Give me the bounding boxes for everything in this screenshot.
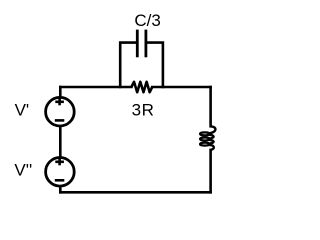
- wire capacitor branch right leg: [147, 43, 163, 87]
- wire left drop to source 1: [59, 87, 62, 96]
- resistor R zigzag: [131, 82, 152, 92]
- wire capacitor branch left leg: [120, 43, 136, 87]
- wire bottom: [60, 191, 210, 194]
- V' minus sign: [55, 119, 65, 122]
- wire right bottom drop: [209, 150, 212, 192]
- svg-text:3R: 3R: [132, 101, 155, 120]
- inductor L coil: [200, 126, 215, 150]
- capacitor C/3 plates: [137, 30, 146, 58]
- svg-text:V'': V'': [14, 160, 32, 179]
- V'' plus sign: [55, 159, 64, 166]
- voltage source V'' circle: [46, 158, 75, 187]
- V' plus sign: [55, 99, 64, 106]
- wire right top drop: [209, 87, 212, 126]
- wire between sources: [59, 127, 62, 158]
- svg-text:C/3: C/3: [134, 11, 160, 30]
- wire top-left segment: [60, 86, 131, 89]
- V'' minus sign: [55, 179, 65, 182]
- wire source 2 to bottom: [59, 187, 62, 193]
- voltage source V' circle: [46, 97, 75, 126]
- svg-text:V': V': [15, 101, 30, 120]
- wire top-right segment: [152, 86, 210, 89]
